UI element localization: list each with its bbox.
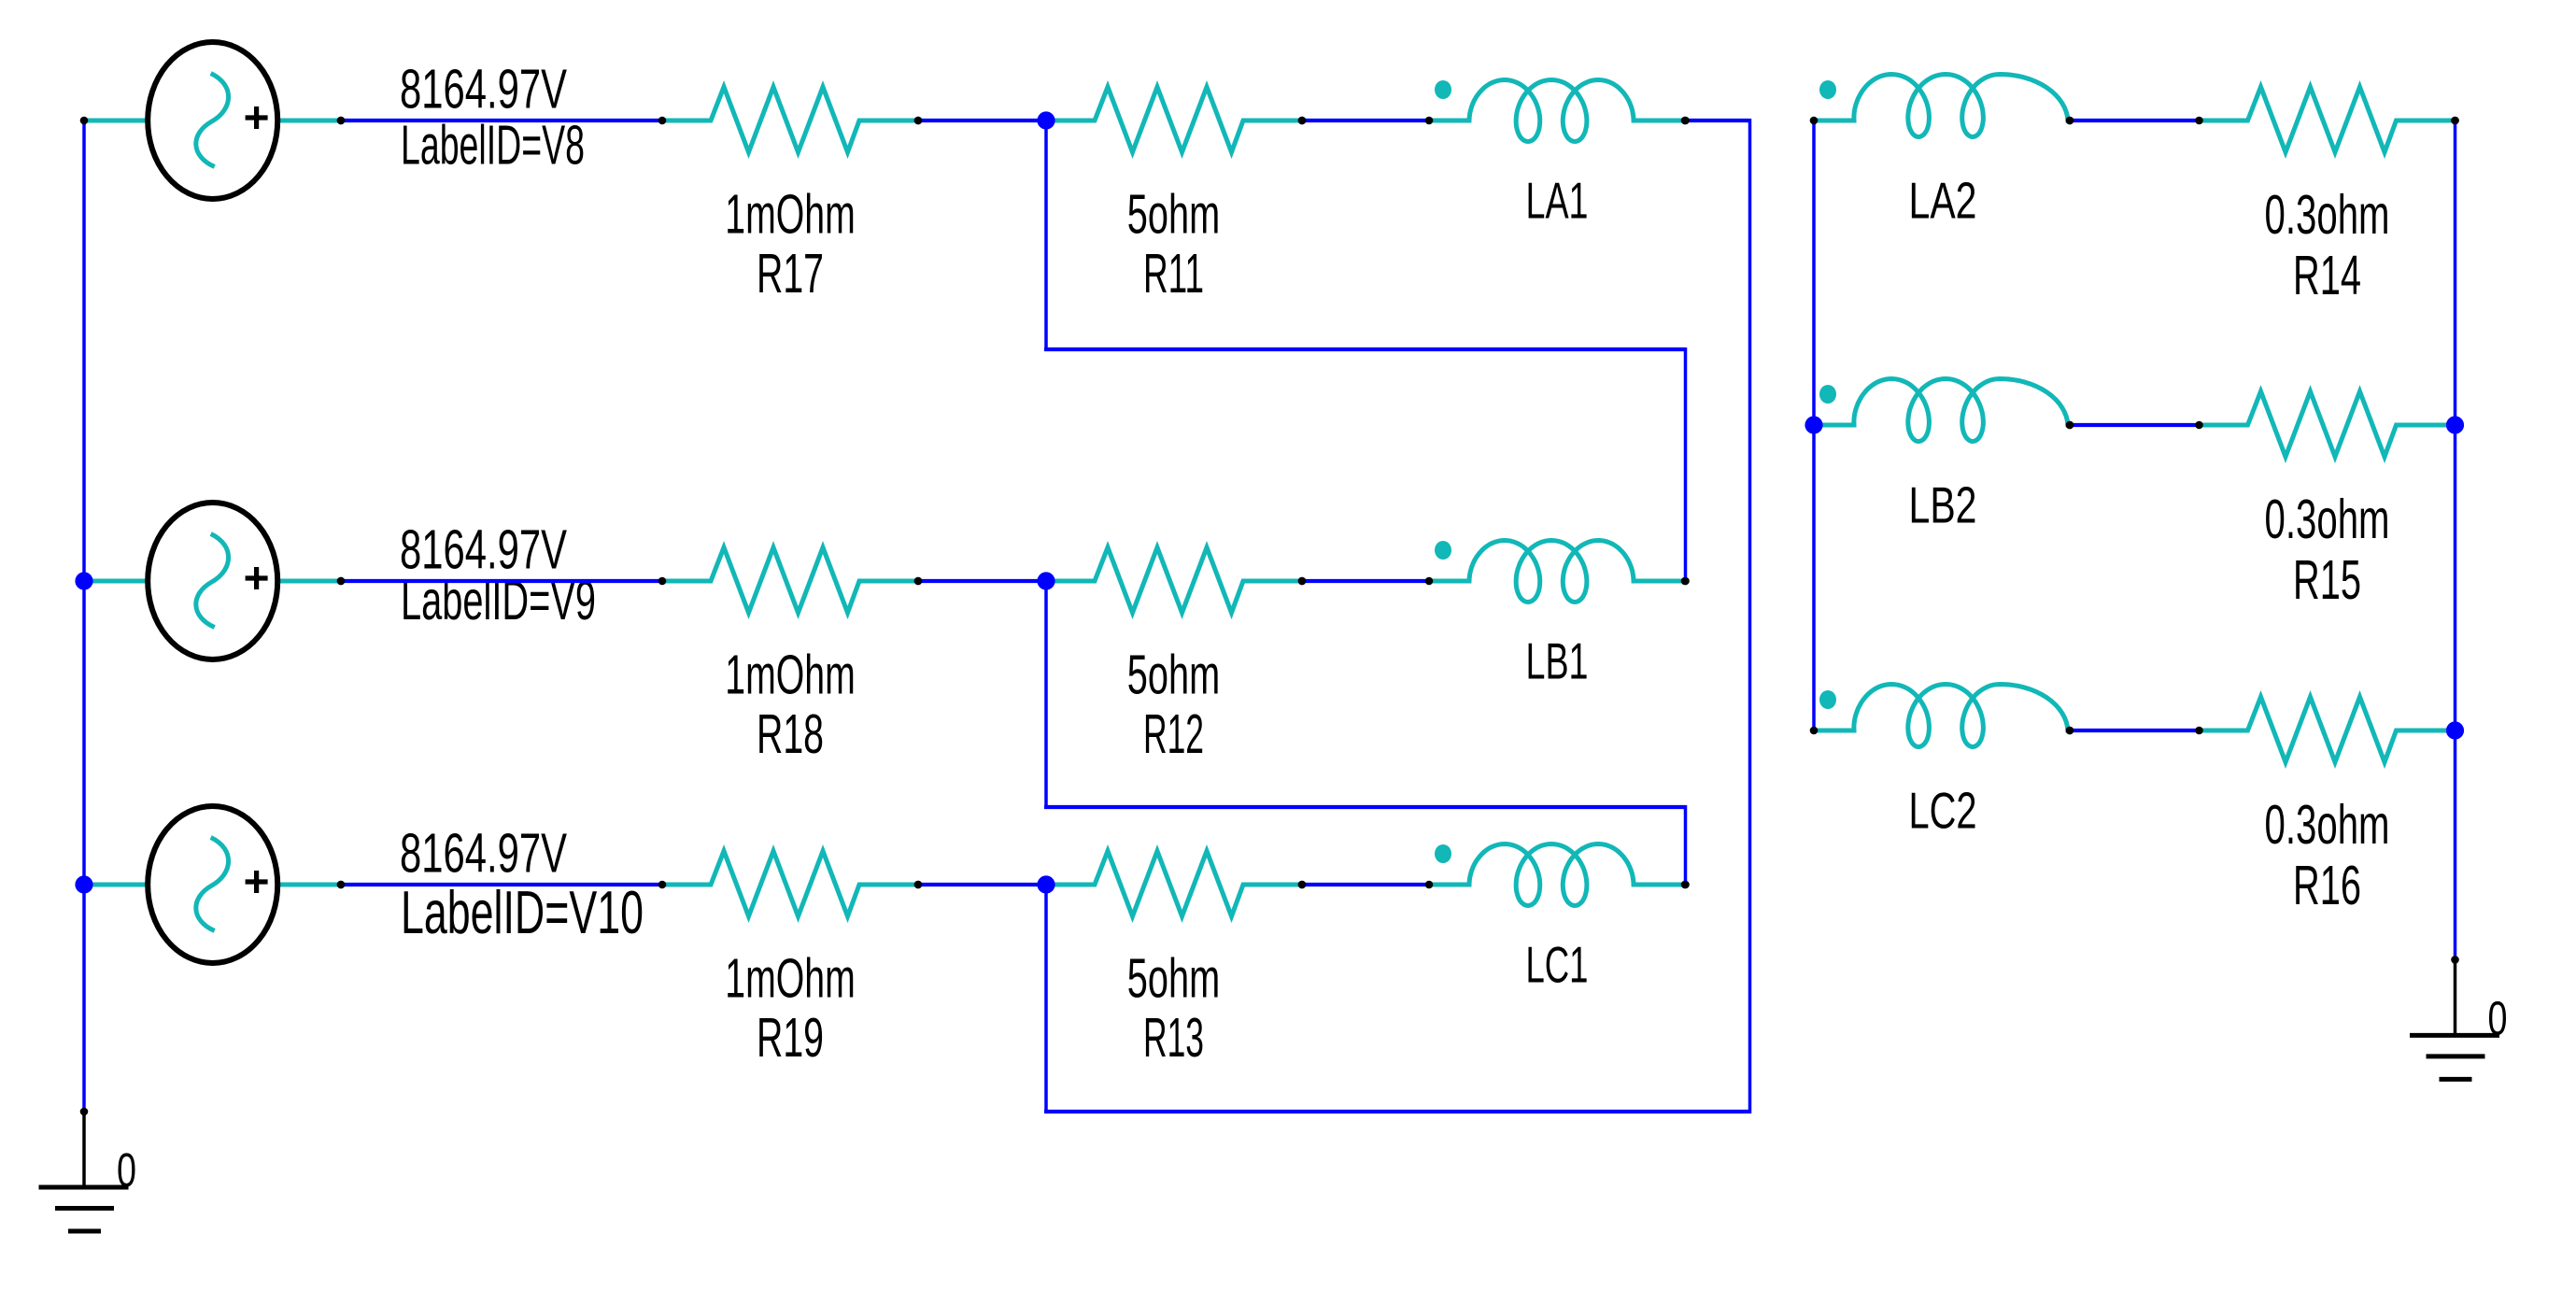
value label 5ohm (R12) [1127,645,1220,706]
name label LabelID=V9 [401,570,596,631]
name label LC2 [1909,782,1977,840]
ground (left) node 0 [39,1108,129,1231]
wire: link node A to LB1 right pin [1044,347,1690,585]
name label R19 [757,1007,824,1069]
value label 8164.97V (V8) [400,59,567,120]
name label R11 [1143,243,1204,305]
resistor R16 [2195,697,2459,762]
wire: link node C to LA1 right pin [1044,119,1750,1113]
ground label 0 (left) [117,1143,136,1197]
inductor LB2 [1814,378,2074,441]
svg-text:R15: R15 [2293,549,2361,611]
node junction at R11 left [1037,111,1054,129]
name label LA1 [1526,172,1589,230]
svg-text:8164.97V: 8164.97V [400,59,567,120]
node junction at R12 left [1037,572,1054,589]
value label 1mOhm (R17) [725,184,856,246]
wire: node A drop [1044,120,1048,349]
inductor LC2 [1810,685,2074,747]
svg-text:LabelID=V10: LabelID=V10 [401,878,644,946]
value label 0.3ohm (R15) [2265,489,2390,550]
svg-text:LC1: LC1 [1526,936,1589,994]
name label R17 [757,243,824,305]
junction right bus row3 [2446,721,2464,739]
junction on bus (V10) [75,875,92,893]
name label LB2 [1909,476,1977,534]
svg-text:R12: R12 [1143,703,1204,765]
svg-text:5ohm: 5ohm [1127,948,1220,1010]
svg-text:R17: R17 [757,243,824,305]
value label 1mOhm (R18) [725,645,856,706]
resistor R19 [658,851,923,916]
wire: right bus [2451,117,2459,960]
name label R12 [1143,703,1204,765]
value label 8164.97V (V10) [400,823,567,885]
name label R18 [757,703,824,765]
svg-text:R18: R18 [757,703,824,765]
ground label 0 (right) [2488,991,2508,1044]
svg-text:1mOhm: 1mOhm [725,184,856,246]
svg-text:LA1: LA1 [1526,172,1589,230]
name label LabelID=V10 [401,878,644,946]
name label LC1 [1526,936,1589,994]
resistor R18 [658,547,923,613]
svg-text:0.3ohm: 0.3ohm [2265,184,2390,246]
wire [337,881,662,889]
resistor R11 [1046,87,1306,152]
wire [914,881,1046,889]
value label 8164.97V (V9) [400,519,567,581]
junction right bus row2 [2446,416,2464,433]
wire [1298,117,1429,125]
svg-text:R14: R14 [2293,245,2361,306]
wire [914,577,1046,586]
name label R16 [2293,855,2361,916]
name label R14 [2293,245,2361,306]
wire: node B drop [1044,581,1048,807]
wire: left vertical bus [82,120,86,1112]
inductor LC1 [1425,844,1690,906]
value label 1mOhm (R19) [725,948,856,1010]
svg-text:LB1: LB1 [1526,632,1589,690]
svg-text:0.3ohm: 0.3ohm [2265,794,2390,856]
svg-text:0: 0 [117,1143,136,1197]
svg-text:1mOhm: 1mOhm [725,645,856,706]
junction LB2 left [1805,416,1822,433]
resistor R17 [658,87,923,152]
svg-text:1mOhm: 1mOhm [725,948,856,1010]
wire [1298,577,1429,586]
svg-text:8164.97V: 8164.97V [400,823,567,885]
name label LabelID=V8 [401,115,585,177]
resistor R12 [1046,547,1306,613]
resistor R14 [2195,87,2459,152]
svg-text:0: 0 [2488,991,2508,1044]
inductor LB1 [1425,541,1690,602]
inductor LA2 [1810,74,2074,136]
value label 0.3ohm (R16) [2265,794,2390,856]
junction on bus (V9) [75,572,92,589]
wire [1681,117,1749,125]
wire: node C drop [1044,885,1048,1112]
wire [1298,881,1429,889]
wire [914,117,1046,125]
svg-text:5ohm: 5ohm [1127,645,1220,706]
name label R15 [2293,549,2361,611]
wire: right-section left bus [1812,120,1816,730]
wire [2066,117,2200,125]
inductor LA1 [1425,80,1690,142]
svg-text:LabelID=V8: LabelID=V8 [401,115,585,177]
wire [2066,421,2200,430]
svg-text:R11: R11 [1143,243,1204,305]
voltage source V8 [80,42,346,199]
value label 5ohm (R13) [1127,948,1220,1010]
svg-text:R19: R19 [757,1007,824,1069]
wire [337,577,662,586]
resistor R15 [2195,391,2459,457]
ground (right) node 0 [2410,956,2499,1079]
name label LA2 [1909,172,1977,230]
svg-text:LB2: LB2 [1909,476,1977,534]
node junction at R13 left [1037,875,1054,893]
wire [337,117,662,125]
name label R13 [1143,1007,1204,1069]
voltage source V9 [84,503,345,659]
name label LB1 [1526,632,1589,690]
resistor R13 [1046,851,1306,916]
svg-text:0.3ohm: 0.3ohm [2265,489,2390,550]
voltage source V10 [84,806,345,963]
value label 0.3ohm (R14) [2265,184,2390,246]
value label 5ohm (R11) [1127,184,1220,246]
svg-text:R13: R13 [1143,1007,1204,1069]
wire: link node B to LC1 right pin [1044,805,1690,888]
svg-text:LA2: LA2 [1909,172,1977,230]
svg-text:R16: R16 [2293,855,2361,916]
wire [2066,727,2200,735]
svg-text:LC2: LC2 [1909,782,1977,840]
svg-text:5ohm: 5ohm [1127,184,1220,246]
